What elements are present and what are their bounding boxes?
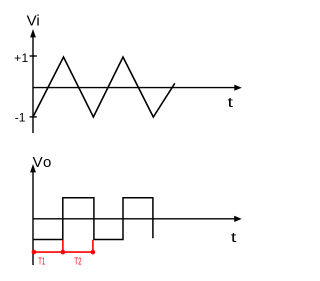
red dot 3: [91, 250, 96, 255]
red vertical at T1 end: [62, 240, 64, 252]
Vo t-axis arrowhead: [234, 216, 242, 222]
Vi t-axis arrowhead: [234, 85, 242, 91]
svg-text:-1: -1: [15, 111, 26, 125]
tick +1: [30, 55, 37, 57]
Vi t-axis: [33, 87, 236, 89]
svg-text:Vo: Vo: [33, 154, 53, 171]
svg-text:+1: +1: [14, 51, 28, 65]
svg-text:T2: T2: [74, 256, 81, 268]
svg-text:t: t: [231, 230, 237, 246]
red dot 2: [61, 250, 66, 255]
Vo y-axis: [32, 171, 34, 266]
Vo t-axis: [33, 218, 236, 220]
Vo y-axis arrowhead: [30, 164, 36, 172]
svg-text:Vi: Vi: [27, 13, 40, 30]
Vo square waveform: [33, 198, 153, 240]
Vi y-axis arrowhead: [30, 29, 36, 37]
Vi y-axis: [32, 36, 34, 134]
tick -1: [30, 116, 37, 118]
svg-text:T1: T1: [38, 256, 45, 268]
svg-text:t: t: [228, 95, 234, 111]
Vi triangle waveform: [33, 57, 175, 117]
red vertical at T2 end: [92, 240, 94, 252]
red dot 1: [32, 250, 37, 255]
red marker line: [34, 251, 93, 253]
